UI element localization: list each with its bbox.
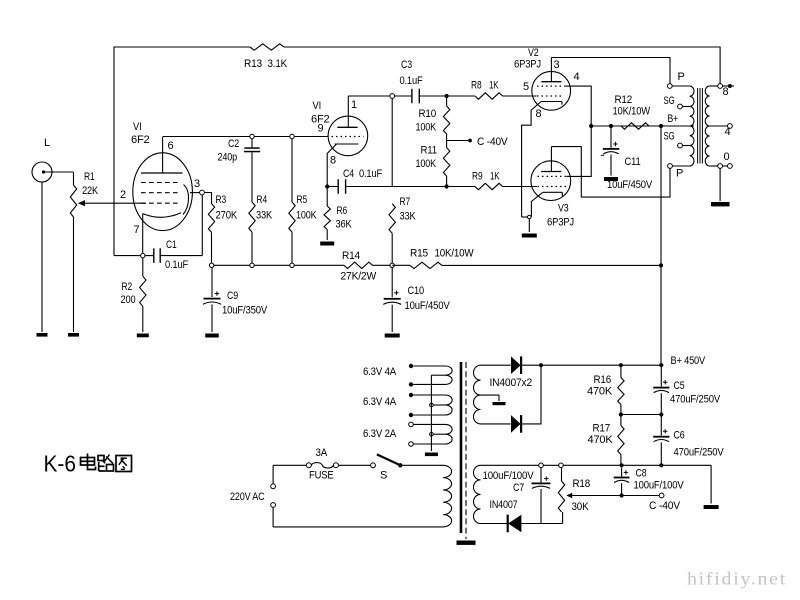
svg-text:36K: 36K: [336, 219, 353, 231]
svg-text:470K: 470K: [588, 434, 614, 446]
svg-text:27K/2W: 27K/2W: [341, 271, 377, 283]
svg-text:270K: 270K: [216, 210, 238, 222]
svg-text:C6: C6: [674, 430, 685, 442]
svg-text:C4: C4: [343, 168, 354, 180]
svg-text:R5: R5: [297, 194, 308, 206]
svg-text:100K: 100K: [416, 122, 437, 134]
svg-text:VI: VI: [313, 100, 322, 112]
svg-text:3: 3: [554, 59, 560, 71]
svg-text:IN4007: IN4007: [490, 499, 518, 511]
svg-text:SG: SG: [664, 95, 675, 107]
svg-text:VI: VI: [133, 121, 142, 133]
svg-text:5: 5: [523, 81, 529, 93]
svg-text:33K: 33K: [400, 211, 417, 223]
svg-text:6P3PJ: 6P3PJ: [547, 217, 574, 229]
svg-text:4: 4: [725, 126, 731, 138]
svg-text:P: P: [678, 71, 685, 83]
svg-text:R7: R7: [400, 196, 411, 208]
svg-text:R11: R11: [421, 145, 438, 157]
svg-text:100K: 100K: [296, 210, 317, 222]
svg-text:V3: V3: [558, 203, 569, 215]
svg-text:K-6: K-6: [44, 451, 77, 477]
svg-text:SG: SG: [664, 131, 675, 143]
svg-text:R15: R15: [410, 248, 428, 260]
svg-text:C9: C9: [227, 290, 238, 302]
svg-text:200: 200: [121, 294, 136, 306]
svg-text:6.3V 4A: 6.3V 4A: [363, 366, 397, 378]
svg-text:R4: R4: [257, 194, 268, 206]
svg-text:22K: 22K: [82, 185, 99, 197]
svg-text:S: S: [380, 470, 387, 482]
svg-text:220V AC: 220V AC: [230, 491, 265, 503]
svg-text:C -40V: C -40V: [477, 136, 508, 148]
svg-text:6F2: 6F2: [131, 134, 150, 146]
svg-text:33K: 33K: [256, 210, 273, 222]
svg-text:3: 3: [194, 178, 200, 190]
svg-text:2: 2: [120, 189, 126, 201]
svg-text:L: L: [44, 137, 50, 149]
svg-text:V2: V2: [528, 47, 539, 59]
svg-text:9: 9: [318, 123, 324, 135]
svg-text:10K/10W: 10K/10W: [613, 106, 651, 118]
svg-text:100uF/100V: 100uF/100V: [634, 480, 685, 492]
svg-text:6.3V 4A: 6.3V 4A: [363, 396, 397, 408]
svg-text:R9: R9: [472, 171, 483, 183]
svg-text:10uF/450V: 10uF/450V: [405, 300, 451, 312]
svg-text:R13: R13: [244, 58, 262, 70]
svg-text:100K: 100K: [416, 158, 437, 170]
svg-text:IN4007x2: IN4007x2: [490, 377, 533, 389]
svg-text:8: 8: [536, 108, 542, 120]
svg-text:0: 0: [724, 151, 730, 163]
svg-text:10uF/450V: 10uF/450V: [607, 179, 653, 191]
svg-text:C2: C2: [228, 138, 239, 150]
svg-text:R8: R8: [471, 80, 482, 92]
svg-text:8: 8: [330, 155, 336, 167]
svg-text:470uF/250V: 470uF/250V: [670, 394, 721, 406]
svg-text:R18: R18: [573, 478, 591, 490]
svg-text:R17: R17: [593, 423, 611, 435]
svg-text:C3: C3: [401, 59, 412, 71]
svg-text:10uF/350V: 10uF/350V: [222, 305, 268, 317]
svg-text:R3: R3: [216, 194, 227, 206]
svg-text:6P3PJ: 6P3PJ: [514, 59, 541, 71]
svg-text:FUSE: FUSE: [309, 470, 334, 482]
svg-text:R14: R14: [342, 250, 360, 262]
svg-text:1K: 1K: [490, 171, 500, 183]
svg-text:R16: R16: [594, 374, 612, 386]
svg-text:C11: C11: [625, 156, 641, 168]
svg-text:240p: 240p: [218, 152, 238, 164]
svg-text:4: 4: [574, 71, 580, 83]
svg-text:30K: 30K: [572, 501, 590, 513]
svg-text:C5: C5: [674, 380, 685, 392]
svg-text:R1: R1: [84, 171, 95, 183]
svg-text:C10: C10: [408, 285, 425, 297]
svg-text:6: 6: [168, 140, 174, 152]
svg-text:7: 7: [134, 224, 140, 236]
svg-text:R12: R12: [615, 94, 633, 106]
svg-text:hifidiy.net: hifidiy.net: [687, 569, 787, 589]
svg-text:R2: R2: [122, 281, 133, 293]
svg-text:C8: C8: [636, 468, 647, 480]
svg-text:1K: 1K: [489, 80, 499, 92]
svg-text:1: 1: [351, 99, 357, 111]
svg-text:3A: 3A: [316, 447, 328, 459]
svg-text:B+ 450V: B+ 450V: [671, 355, 706, 367]
svg-text:100uF/100V: 100uF/100V: [483, 470, 535, 482]
svg-text:8: 8: [723, 86, 729, 98]
svg-text:R6: R6: [337, 205, 348, 217]
svg-text:0.1uF: 0.1uF: [400, 75, 423, 87]
svg-text:0.1uF: 0.1uF: [165, 259, 188, 271]
svg-text:0.1uF: 0.1uF: [359, 168, 382, 180]
svg-text:3.1K: 3.1K: [268, 58, 288, 70]
svg-text:470K: 470K: [587, 386, 613, 398]
svg-text:P: P: [676, 168, 683, 180]
svg-text:10K/10W: 10K/10W: [435, 248, 475, 260]
svg-text:C1: C1: [166, 239, 177, 251]
svg-text:R10: R10: [419, 108, 437, 120]
svg-text:B+: B+: [668, 113, 679, 125]
svg-text:6.3V 2A: 6.3V 2A: [363, 428, 397, 440]
svg-text:C -40V: C -40V: [649, 500, 681, 512]
svg-text:470uF/250V: 470uF/250V: [674, 447, 725, 459]
svg-text:C7: C7: [513, 482, 524, 494]
